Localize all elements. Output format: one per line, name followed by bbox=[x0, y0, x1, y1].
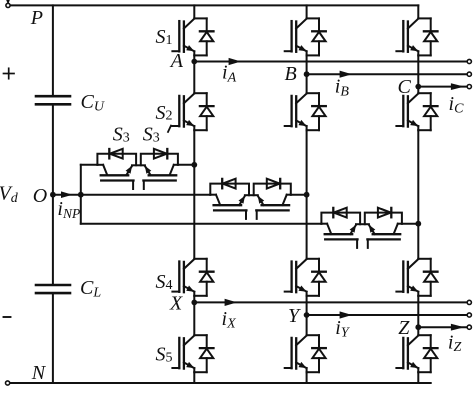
svg-text:X: X bbox=[169, 293, 183, 315]
svg-text:A: A bbox=[169, 50, 184, 72]
svg-text:O: O bbox=[33, 185, 47, 207]
svg-text:B: B bbox=[285, 63, 297, 85]
svg-text:Z: Z bbox=[398, 317, 410, 339]
svg-text:Y: Y bbox=[288, 305, 301, 327]
svg-text:P: P bbox=[30, 7, 43, 29]
svg-text:N: N bbox=[31, 362, 47, 384]
svg-text:C: C bbox=[398, 76, 412, 98]
